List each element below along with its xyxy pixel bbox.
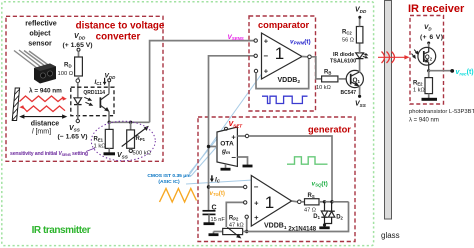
svg-text:D2: D2 — [336, 215, 343, 221]
op-amp 1 (VDDB1 Schmitt trigger) — [251, 176, 291, 231]
comparator input terminals — [254, 39, 258, 73]
svg-text:distance to voltage: distance to voltage — [76, 21, 165, 32]
vPWM output wire to RB — [311, 57, 321, 79]
purple label: sensitivity and initial VSENS setting — [10, 148, 95, 157]
phototransistor Q2 L-53P3BT — [418, 47, 436, 69]
svg-text:+: + — [264, 67, 269, 76]
opamp1 plus input wire from RP2 wiper — [226, 201, 247, 227]
OTA bottom ground — [221, 164, 231, 169]
comparator hysteresis feedback loop — [256, 58, 309, 89]
vrec(t) cyan label — [456, 69, 474, 77]
junction vTG to opamp1 minus — [207, 185, 247, 188]
OTA plus input wire from square-wave node — [237, 134, 332, 202]
svg-text:λ = 940 nm: λ = 940 nm — [409, 117, 439, 123]
svg-text:comparator: comparator — [258, 20, 310, 30]
svg-text:47 Ω: 47 Ω — [304, 207, 316, 213]
phototransistor part label — [409, 109, 474, 123]
VD supply label (+6V) — [420, 24, 443, 48]
generator box (red dashed) — [198, 117, 355, 242]
ground below capacitor — [204, 222, 215, 225]
title: distance to voltage converter — [76, 21, 165, 43]
red zigzag reflected ray (upper, arrow right) — [20, 96, 67, 102]
svg-text:generator: generator — [308, 125, 351, 135]
potentiometer RP1 500k — [122, 121, 152, 157]
IR receiver box (red dashed) — [410, 16, 444, 105]
red radiation arrow to receiver — [378, 55, 410, 59]
IR transmitter label — [32, 225, 91, 236]
distance dimension arrow — [19, 114, 67, 135]
svg-text:(+ 6 V): (+ 6 V) — [420, 34, 443, 41]
IR LED inside QRD1114 — [74, 98, 82, 120]
IR diode TSAL6100 — [330, 52, 364, 64]
node circle below RD — [76, 76, 80, 98]
svg-text:1: 1 — [275, 44, 284, 63]
ground bar below RE1 with VSS label — [104, 152, 129, 159]
vTG node vertical wire (comparator minus input down to capacitor) — [209, 56, 255, 210]
VDD supply terminal (converter, +1.65V) — [63, 33, 93, 57]
svg-text:OTA: OTA — [220, 141, 234, 148]
svg-text:RB: RB — [324, 70, 331, 76]
svg-text:−: − — [231, 153, 236, 162]
Q1 emitter to VSS — [355, 86, 367, 108]
opamp1 feedback input wire from bottom rail — [245, 215, 248, 233]
resistor RS 47ohm — [304, 193, 325, 213]
svg-text:+: + — [254, 199, 259, 208]
svg-text:(− 1.65 V): (− 1.65 V) — [58, 134, 88, 141]
svg-text:100 Ω: 100 Ω — [58, 71, 74, 77]
phototransistor emitter wire to node — [108, 112, 111, 125]
Q2 emitter node and output wire — [427, 69, 454, 73]
OTA minus input to ground — [237, 157, 252, 166]
VDD terminal above RC2 — [355, 7, 367, 27]
svg-text:+: + — [231, 132, 236, 141]
diode D1 — [313, 202, 327, 225]
resistor RC2 56ohm — [342, 27, 363, 44]
VSENS label (magenta) — [228, 34, 244, 41]
IR receiver title — [408, 3, 465, 15]
phototransistor inside QRD1114 — [100, 94, 109, 112]
svg-text:D1: D1 — [313, 214, 320, 220]
reflective object (hatched bar) — [12, 88, 19, 121]
opamp1 output terminal — [292, 200, 305, 204]
LED emission arrows toward glass — [363, 53, 369, 59]
blue PWM waveform — [262, 96, 308, 103]
vTG(t) orange label — [210, 190, 225, 197]
svg-text:object: object — [29, 29, 51, 38]
svg-text:sensitivity and initial VSENS: sensitivity and initial VSENS setting — [10, 151, 88, 157]
svg-text:RC2: RC2 — [342, 30, 352, 36]
square node loop to bottom rail — [247, 202, 349, 232]
potentiometer RP2 47k — [214, 216, 247, 239]
svg-text:IR diode: IR diode — [333, 52, 354, 58]
OTA gm amplifier U3 — [217, 127, 237, 166]
VSS terminal below LED (-1.65V) — [58, 119, 88, 140]
svg-text:QRD1114: QRD1114 — [83, 90, 105, 96]
resistor RE2 1k — [413, 71, 433, 98]
svg-text:phototransistor L-53P3BT: phototransistor L-53P3BT — [409, 109, 474, 115]
wire LED to RC2 — [359, 43, 361, 53]
2x1N4148 label — [288, 227, 316, 233]
svg-text:1 kΩ: 1 kΩ — [94, 144, 107, 150]
orange triangle waveform — [160, 189, 197, 203]
svg-text:sensor: sensor — [28, 39, 52, 48]
sensor package icon (QRD1114 photo) — [14, 50, 56, 84]
svg-text:λ = 940 nm: λ = 940 nm — [29, 87, 62, 95]
clamp node wire to square node — [323, 200, 349, 203]
svg-text:IR receiver: IR receiver — [408, 3, 465, 15]
svg-text:C: C — [212, 204, 217, 211]
glass label — [381, 231, 400, 240]
svg-text:+: + — [254, 213, 259, 222]
LED emission arrows inside QRD1114 — [84, 97, 93, 105]
IC current arrow into capacitor — [210, 175, 221, 183]
vPWM(t) blue label — [290, 38, 311, 45]
CMOS IST callout label — [147, 173, 191, 185]
comparator op-amp 1 (VDDB2) — [262, 33, 303, 85]
ground left of RP2 — [209, 232, 219, 235]
generator title — [308, 125, 351, 135]
capacitor C 15nF — [203, 204, 226, 223]
glass pane — [385, 1, 392, 220]
svg-text:10 kΩ: 10 kΩ — [316, 85, 331, 91]
VSENS riser wire up and across to comparator — [150, 41, 254, 123]
receiver ground — [422, 98, 438, 101]
emitter node horizontal wire — [109, 121, 149, 123]
label: lambda 940nm (transmitter side) — [29, 87, 62, 95]
incident light arrows into Q2 — [412, 50, 419, 59]
svg-text:IR transmitter: IR transmitter — [32, 225, 91, 236]
label: reflective object sensor — [25, 19, 57, 48]
resistor RB 10k — [316, 70, 351, 92]
Q1 collector wire up to LED — [358, 59, 360, 72]
distance-to-voltage converter box (red dashed) — [6, 16, 163, 161]
ground below diodes — [319, 223, 329, 227]
svg-text:(+ 1.65 V): (+ 1.65 V) — [63, 42, 93, 49]
IR transmitter enclosure box (green dashed) — [2, 2, 374, 246]
IC1 current label and VDD terminal (phototransistor collector) — [95, 73, 117, 94]
resistor RD 100ohm — [58, 57, 83, 77]
comparator output terminal — [302, 55, 311, 59]
svg-text:+: + — [264, 37, 269, 46]
QRD1114 dashed package box — [71, 87, 114, 116]
OTA output wire to vTG node — [207, 145, 217, 148]
svg-text:−: − — [254, 183, 259, 192]
svg-text:converter: converter — [96, 32, 141, 43]
comparator title — [258, 20, 310, 30]
svg-text:reflective: reflective — [25, 19, 57, 28]
transistor Q1 BC547 — [341, 70, 364, 96]
red IR radiation arcs through glass — [382, 52, 395, 64]
svg-text:glass: glass — [381, 231, 400, 240]
VSET input terminal on OTA top — [225, 121, 244, 130]
svg-text:TSAL6100: TSAL6100 — [330, 58, 356, 64]
svg-text:CMOS IST 0.35 μm: CMOS IST 0.35 μm — [147, 173, 191, 179]
svg-text:RE1: RE1 — [94, 137, 104, 143]
purple dotted ellipse (sensitivity setting) — [91, 121, 155, 161]
callout lines to ASIC blocks — [186, 74, 262, 184]
comparator box (red dashed) — [249, 16, 316, 111]
svg-text:−: − — [263, 51, 268, 60]
svg-text:(ASIC IC): (ASIC IC) — [158, 179, 180, 185]
svg-text:BC547: BC547 — [341, 90, 357, 96]
svg-text:RP1: RP1 — [136, 136, 146, 142]
svg-text:l [mm]: l [mm] — [32, 129, 51, 136]
svg-text:RE2: RE2 — [413, 81, 423, 87]
diode D2 (anti-parallel) — [325, 202, 344, 225]
svg-text:1 kΩ: 1 kΩ — [413, 88, 425, 94]
svg-text:56 Ω: 56 Ω — [342, 38, 354, 44]
green square waveform — [287, 157, 328, 164]
svg-text:1: 1 — [265, 193, 274, 212]
svg-text:15 nF: 15 nF — [211, 217, 226, 223]
svg-text:47 kΩ: 47 kΩ — [229, 222, 244, 228]
svg-text:RP2: RP2 — [229, 216, 239, 222]
svg-text:RS: RS — [308, 193, 315, 199]
resistor RE1 1k — [94, 122, 114, 153]
red zigzag emitted ray (lower, arrow left) — [19, 105, 65, 111]
vSQ(t) green label — [312, 181, 328, 188]
svg-text:distance: distance — [31, 121, 60, 128]
